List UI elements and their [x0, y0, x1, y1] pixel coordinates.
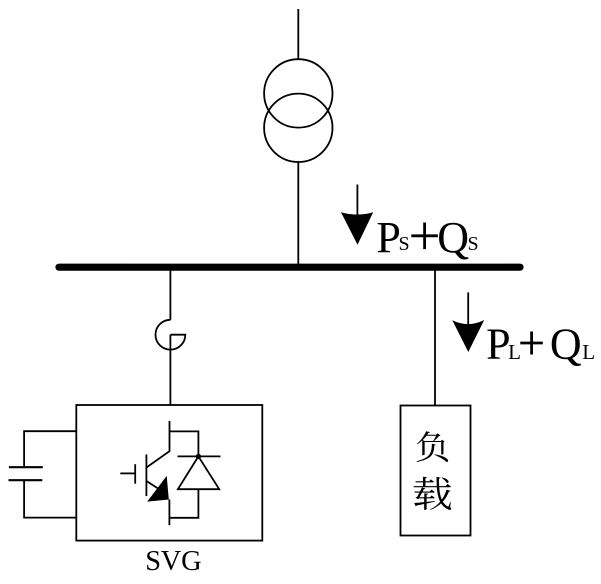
- transformer T1 secondary winding: [264, 94, 332, 162]
- label 载 (load char 2): [414, 477, 452, 510]
- wire: capacitor top connection: [24, 431, 76, 467]
- diode D1 triangle: [178, 456, 219, 489]
- wire: bus to reactor: [169, 271, 171, 320]
- wire: source lead above transformer: [297, 9, 299, 60]
- wire: gate lead: [120, 472, 135, 474]
- label plus sign of PL+QL: [520, 332, 543, 355]
- IGBT Q1 body bar: [145, 454, 147, 496]
- junction dot at diode cathode: [196, 454, 201, 459]
- wire: reactor to SVG box: [169, 335, 171, 405]
- IGBT emitter arrow (filled): [147, 476, 169, 502]
- wire: collector to diode cathode: [170, 431, 199, 456]
- label 负 (load char 1): [417, 431, 449, 462]
- svg-text:Q: Q: [437, 213, 469, 262]
- diode D1 cathode bar: [178, 455, 221, 457]
- label Ps+Qs: [376, 213, 478, 262]
- wire: IGBT collector lead: [147, 421, 170, 467]
- load box: [401, 406, 471, 536]
- svg-text:S: S: [399, 233, 410, 255]
- capacitor C1 bottom plate: [9, 479, 43, 481]
- label plus sign of Ps+Qs: [411, 223, 438, 250]
- reactor L1 (connection reactor arc): [155, 320, 185, 350]
- svg-text:P: P: [376, 213, 400, 262]
- arrow PL shaft: [467, 292, 469, 325]
- wire: emitter diagonal: [147, 481, 159, 489]
- bus bar: [59, 264, 520, 271]
- svg-text:SVG: SVG: [145, 546, 201, 577]
- wire: bus to load branch: [434, 271, 436, 406]
- svg-text:L: L: [582, 340, 595, 364]
- capacitor C1 top plate: [9, 466, 43, 468]
- svg-text:S: S: [468, 233, 479, 255]
- wire: capacitor bottom connection: [24, 480, 76, 517]
- arrow Ps shaft: [356, 185, 358, 220]
- wire: IGBT emitter lead: [168, 500, 170, 526]
- svg-text:Q: Q: [550, 320, 582, 369]
- transformer T1 primary winding: [264, 59, 332, 127]
- IGBT Q1 gate bar: [134, 464, 136, 484]
- arrow PL head: [452, 320, 484, 352]
- arrow Ps head: [341, 212, 373, 245]
- svg-text:P: P: [486, 320, 510, 369]
- label PL+QL: [486, 320, 595, 369]
- SVG converter box: [76, 405, 262, 541]
- svg-text:L: L: [508, 340, 521, 364]
- wire: diode anode lead: [169, 489, 198, 518]
- wire: transformer to bus: [297, 162, 299, 265]
